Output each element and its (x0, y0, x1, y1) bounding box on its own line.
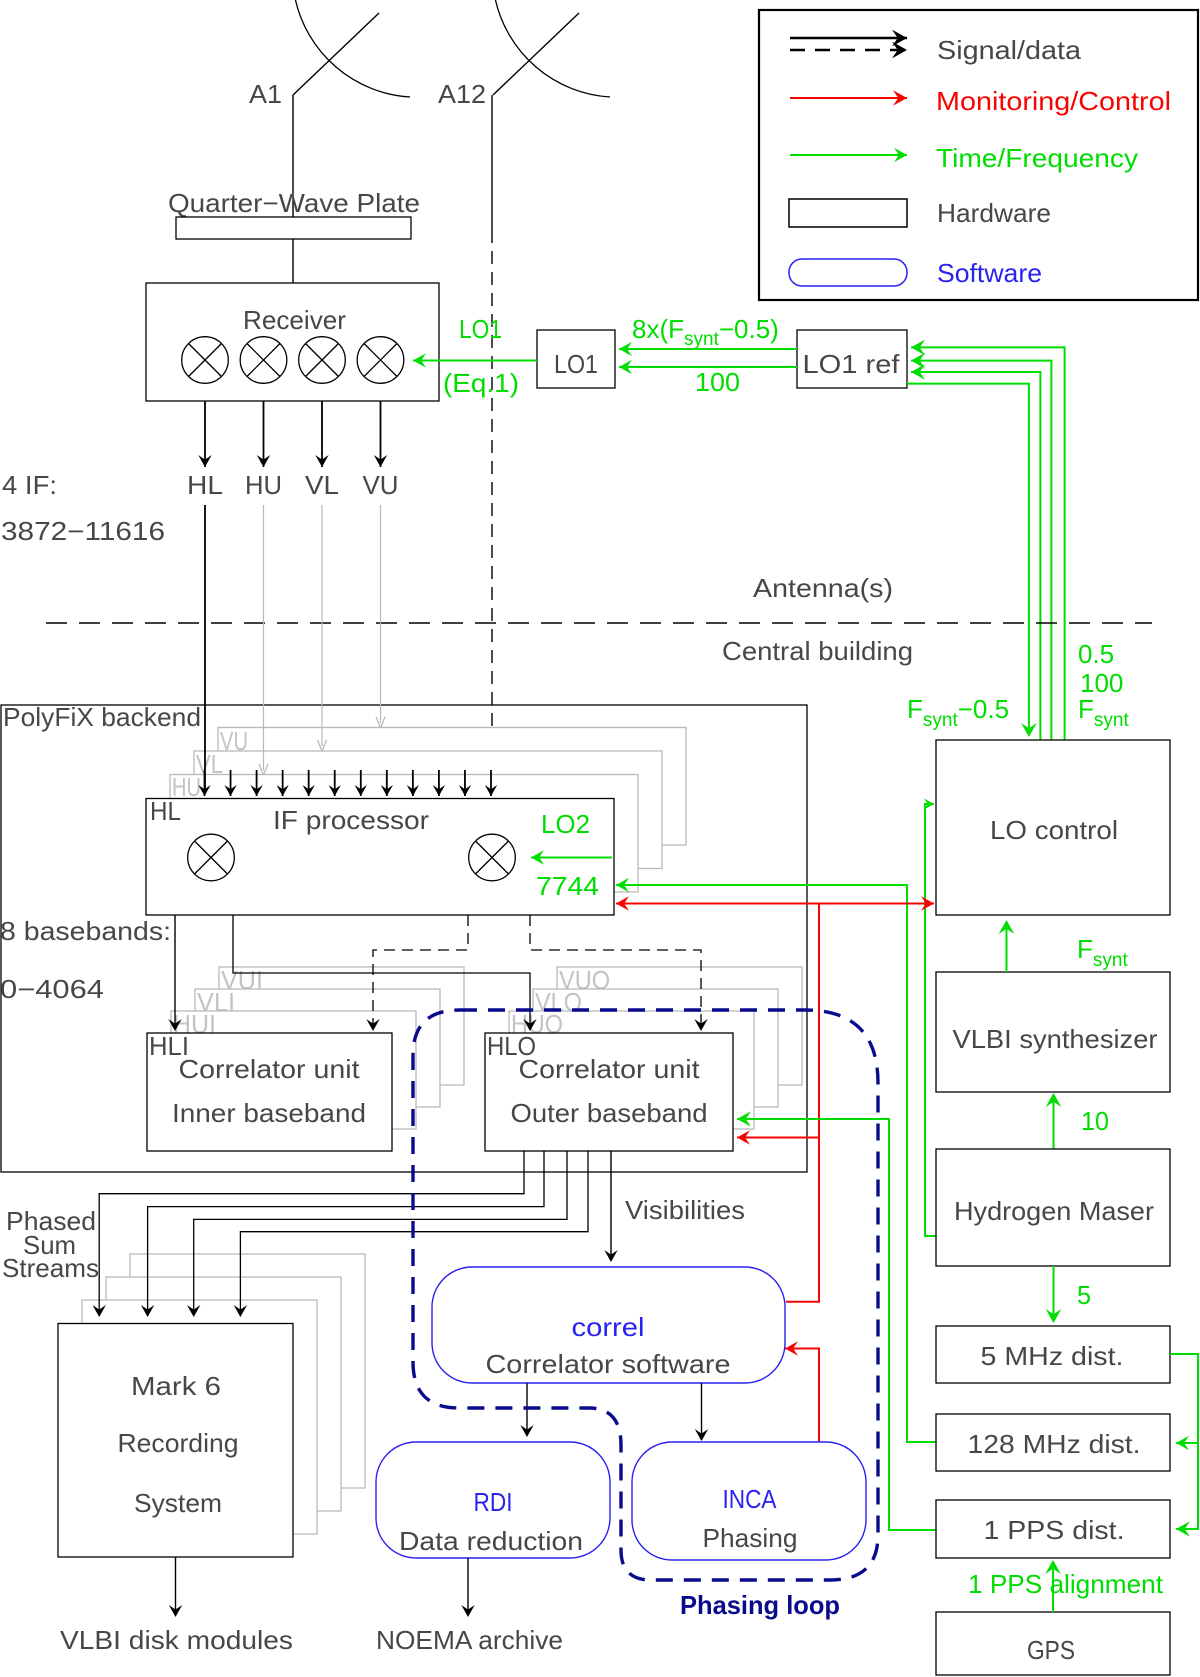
outer correlator ghost HUO (509, 1011, 754, 1129)
svg-text:HL: HL (187, 470, 223, 500)
legend box (759, 10, 1198, 300)
svg-text:4 IF:: 4 IF: (2, 470, 57, 500)
svg-text:(Eq.1): (Eq.1) (443, 368, 519, 398)
outer correlator ghost VUO (557, 967, 802, 1085)
svg-text:Outer baseband: Outer baseband (511, 1098, 708, 1128)
svg-text:5: 5 (1077, 1280, 1091, 1310)
antenna A1 stem wire (292, 95, 294, 217)
wire maser to VLBI synthesizer (green) (1053, 1098, 1055, 1149)
antenna A1 feed line (293, 13, 379, 95)
svg-text:VU: VU (363, 470, 399, 500)
input arrow 9 into IF processor (412, 770, 414, 796)
svg-text:Time/Frequency: Time/Frequency (936, 143, 1138, 173)
input arrow 4 into IF processor (282, 770, 284, 796)
wire IF processor to inner correlator (solid left) (174, 915, 176, 1026)
wire 100 from LO control to LO1 ref (green) (911, 361, 1051, 741)
128 MHz dist box (936, 1414, 1170, 1471)
svg-text:IF processor: IF processor (273, 805, 429, 835)
svg-text:Correlator unit: Correlator unit (519, 1054, 701, 1084)
svg-text:100: 100 (695, 367, 740, 397)
wire VU down (gray) (380, 505, 382, 723)
wire monitoring vertical LO control to correl (red) (786, 904, 819, 1302)
1 PPS dist box (936, 1500, 1170, 1558)
svg-text:GPS: GPS (1027, 1635, 1075, 1665)
svg-text:Software: Software (937, 258, 1042, 288)
wire IF processor to outer correlator (solid) (233, 915, 530, 1026)
wire IF output 4 from receiver (380, 401, 382, 467)
input arrow 3 into IF processor (256, 770, 258, 796)
input arrow 8 into IF processor (386, 770, 388, 796)
wire RDI to NOEMA archive (467, 1558, 469, 1611)
wire phased sum stream 2 (148, 1151, 544, 1312)
input arrow 6 into IF processor (334, 770, 336, 796)
wire 5 MHz to 128 MHz and 1 PPS (green) (1170, 1354, 1198, 1529)
svg-text:PolyFiX backend: PolyFiX backend (3, 702, 201, 732)
input arrow 7 into IF processor (360, 770, 362, 796)
legend green arrow (790, 154, 907, 156)
input arrow 10 into IF processor (438, 770, 440, 796)
svg-text:0−4064: 0−4064 (0, 974, 104, 1004)
svg-text:HU: HU (245, 470, 282, 500)
svg-text:INCA: INCA (723, 1484, 778, 1514)
svg-text:Inner baseband: Inner baseband (172, 1098, 366, 1128)
wire Mark 6 to disk modules (175, 1557, 177, 1611)
wire VL down (gray) (321, 505, 323, 746)
input arrow 11 into IF processor (464, 770, 466, 796)
svg-text:HL: HL (150, 796, 181, 826)
antenna A12 dish arc (495, 0, 610, 97)
svg-text:7744: 7744 (536, 871, 599, 901)
svg-text:Phasing: Phasing (703, 1523, 798, 1553)
svg-text:correl: correl (572, 1312, 645, 1342)
svg-text:Signal/data: Signal/data (937, 35, 1082, 65)
VLBI synthesizer box (936, 972, 1170, 1092)
mixer 4 in receiver (357, 337, 404, 384)
correl software box (432, 1267, 785, 1383)
svg-text:NOEMA archive: NOEMA archive (376, 1625, 563, 1655)
wire monitoring IF processor - LO control (red) (616, 903, 934, 905)
svg-text:System: System (134, 1488, 222, 1518)
svg-text:1 PPS dist.: 1 PPS dist. (984, 1515, 1125, 1545)
wire LO1 ref to LO1 lower (green) (619, 366, 797, 368)
wire correl to RDI (526, 1383, 528, 1431)
IF processor ghost box HU (170, 775, 638, 893)
legend hardware box (789, 199, 907, 227)
inner correlator ghost VUI (219, 967, 464, 1085)
svg-text:LO1: LO1 (554, 349, 598, 379)
wire IF output 3 from receiver (321, 401, 323, 467)
svg-text:1 PPS alignment: 1 PPS alignment (968, 1569, 1164, 1599)
correlator unit outer baseband box HLO (485, 1033, 733, 1151)
wire 128MHz to IF processor (green) (616, 885, 936, 1442)
svg-text:Antenna(s): Antenna(s) (753, 573, 893, 603)
wire maser to 5 MHz dist (green) (1053, 1266, 1055, 1317)
svg-text:VLBI disk modules: VLBI disk modules (60, 1625, 293, 1655)
mixer 3 in receiver (299, 337, 346, 384)
input arrow 1 into IF processor (204, 770, 206, 796)
Mark 6 ghost box 3 (130, 1254, 365, 1488)
input arrow 2 into IF processor (230, 770, 232, 796)
svg-text:LO1: LO1 (459, 314, 502, 344)
wire Fsynt from LO control to LO1 ref (green) (911, 347, 1065, 741)
input arrow 12 into IF processor (490, 770, 492, 796)
svg-text:Receiver: Receiver (243, 305, 346, 335)
INCA box (632, 1442, 866, 1560)
GPS box (936, 1612, 1170, 1675)
wire QWP to Receiver (292, 239, 294, 283)
input arrow 5 into IF processor (308, 770, 310, 796)
wire correl to INCA (701, 1383, 703, 1435)
Mark 6 ghost box 1 (82, 1300, 317, 1534)
wire IF processor to outer correlator (dashed) (530, 915, 701, 1022)
mixer 2 in receiver (240, 337, 287, 384)
svg-text:Central building: Central building (722, 636, 913, 666)
correlator unit inner baseband box HLI (147, 1033, 392, 1151)
LO1 box (537, 330, 615, 388)
svg-text:VL: VL (305, 470, 339, 500)
svg-text:Quarter−Wave Plate: Quarter−Wave Plate (168, 188, 420, 218)
svg-text:128 MHz dist.: 128 MHz dist. (968, 1429, 1141, 1459)
svg-text:VLBI synthesizer: VLBI synthesizer (953, 1024, 1158, 1054)
wire maser 100MHz to LO control (green) (925, 804, 936, 1236)
Mark 6 ghost box 2 (106, 1277, 341, 1511)
wire IF output 2 from receiver (263, 401, 265, 467)
svg-text:10: 10 (1081, 1106, 1109, 1136)
svg-text:Monitoring/Control: Monitoring/Control (936, 86, 1171, 116)
inner correlator ghost VLI (195, 989, 440, 1107)
wire phased sum stream 3 (194, 1151, 567, 1312)
wire visibilities to correl (610, 1151, 612, 1257)
wire phased sum stream 1 (99, 1151, 524, 1312)
PolyFiX backend box (1, 705, 807, 1172)
antenna A1 dish arc (295, 0, 410, 97)
svg-text:Hardware: Hardware (937, 198, 1051, 228)
LO1 ref box (797, 330, 907, 388)
5 MHz dist box (936, 1326, 1170, 1383)
svg-text:Correlator unit: Correlator unit (179, 1054, 361, 1084)
wire GPS to 1 PPS dist (green) (1052, 1564, 1054, 1612)
svg-text:8 basebands:: 8 basebands: (0, 916, 171, 946)
wire branch into 128 MHz dist (green) (1176, 1442, 1198, 1444)
svg-text:LO control: LO control (990, 815, 1118, 845)
svg-text:Recording: Recording (118, 1428, 239, 1458)
legend red arrow (790, 97, 907, 99)
svg-text:Streams: Streams (2, 1253, 99, 1283)
svg-text:5 MHz dist.: 5 MHz dist. (981, 1341, 1124, 1371)
svg-text:Mark 6: Mark 6 (131, 1371, 221, 1401)
receiver box (146, 283, 439, 401)
dashed separator antenna/central building (46, 622, 1152, 624)
legend solid signal arrow (790, 37, 907, 40)
wire monitoring to outer correlator (red) (737, 1137, 819, 1139)
wire A12 dashed down to IF processor (491, 230, 493, 768)
wire LO1 to receiver mixers (green) (413, 360, 537, 362)
wire 1PPS to outer correlator (green) (737, 1119, 936, 1530)
mixer right in IF processor (469, 834, 516, 881)
svg-text:Data reduction: Data reduction (399, 1526, 583, 1556)
wire phased sum stream 4 (240, 1151, 588, 1312)
svg-text:LO1 ref: LO1 ref (803, 349, 901, 379)
svg-text:Phasing loop: Phasing loop (680, 1590, 840, 1620)
phasing loop dashed boundary (413, 1010, 878, 1580)
svg-text:RDI: RDI (474, 1487, 513, 1517)
legend software box (789, 259, 907, 286)
LO control box (936, 740, 1170, 915)
wire LO2 into right mixer (green) (531, 857, 612, 859)
wire monitoring INCA to correl (red) (785, 1349, 819, 1443)
inner correlator ghost HUI (171, 1011, 416, 1129)
legend dashed signal arrow (790, 49, 907, 52)
wire HL down to IF processor (204, 505, 206, 792)
IF processor ghost box VL (194, 751, 662, 869)
svg-text:Hydrogen Maser: Hydrogen Maser (954, 1196, 1154, 1226)
IF processor box HL (146, 799, 614, 916)
wire LO1 ref to LO1 upper (green) (619, 348, 797, 350)
svg-text:A1: A1 (249, 79, 282, 109)
wire IF output 1 from receiver (204, 401, 206, 467)
Hydrogen Maser box (936, 1149, 1170, 1266)
RDI box (376, 1442, 610, 1558)
mixer left in IF processor (188, 834, 235, 881)
svg-text:A12: A12 (438, 79, 486, 109)
Mark 6 recording system box (58, 1324, 293, 1558)
wire IF processor to inner correlator (dashed) (373, 915, 468, 1022)
outer correlator ghost VLO (533, 989, 778, 1107)
wire Fsynt-0.5 from LO1 ref to LO control (green) (907, 384, 1029, 732)
svg-text:LO2: LO2 (541, 809, 590, 839)
antenna A12 stem wire (solid part) (491, 95, 493, 230)
mixer 1 in receiver (182, 337, 229, 384)
antenna A12 feed line (493, 13, 579, 95)
IF processor ghost box VU (218, 728, 686, 846)
svg-text:Correlator software: Correlator software (486, 1349, 731, 1379)
quarter-wave plate (176, 217, 411, 239)
svg-text:Visibilities: Visibilities (625, 1195, 745, 1225)
wire HU down (gray) (263, 505, 265, 770)
wire 0.5 from LO control to LO1 ref (green) (911, 372, 1040, 741)
wire VLBI synthesizer to LO control (green) (1006, 926, 1008, 972)
svg-text:0.5: 0.5 (1078, 639, 1114, 669)
svg-text:3872−11616: 3872−11616 (1, 516, 165, 546)
